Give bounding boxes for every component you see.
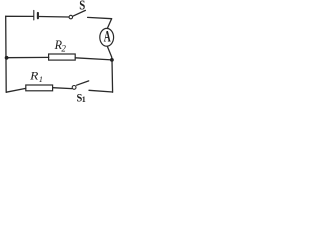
svg-text:R: R xyxy=(29,69,39,83)
battery short plate (-) xyxy=(37,13,39,18)
svg-text:S: S xyxy=(79,0,85,13)
node A (left junction dot) xyxy=(5,56,9,60)
wire R1 to bottom-left corner xyxy=(6,88,25,92)
wire R2 to right rail node xyxy=(75,58,112,60)
svg-text:A: A xyxy=(104,29,111,46)
switch S blade (open) xyxy=(73,10,86,16)
battery long plate (+) xyxy=(33,10,35,20)
wire S1 to resistor R1 xyxy=(53,87,72,90)
wire battery to switch S xyxy=(39,16,68,19)
wire ammeter to right rail xyxy=(107,46,112,92)
wire bottom-right (corner to S1 contact) xyxy=(89,90,113,92)
switch S1 pivot circle xyxy=(72,86,76,90)
wire top-right corner down to ammeter xyxy=(107,19,111,29)
wire switch S to top-right corner xyxy=(88,17,112,18)
resistor R2 box xyxy=(49,54,76,60)
svg-text:1: 1 xyxy=(39,74,43,84)
switch S pivot circle xyxy=(69,15,73,19)
wire node left to resistor R2 xyxy=(6,56,48,58)
svg-text:1: 1 xyxy=(82,95,86,104)
ammeter U1 circle xyxy=(100,28,114,46)
resistor R1 box xyxy=(26,85,53,91)
switch S1 blade (open) xyxy=(77,81,89,85)
node B (right junction dot) xyxy=(110,58,114,62)
svg-text:2: 2 xyxy=(61,44,66,54)
wire left rail xyxy=(5,16,8,92)
wire top-left (corner to battery) xyxy=(6,15,34,17)
